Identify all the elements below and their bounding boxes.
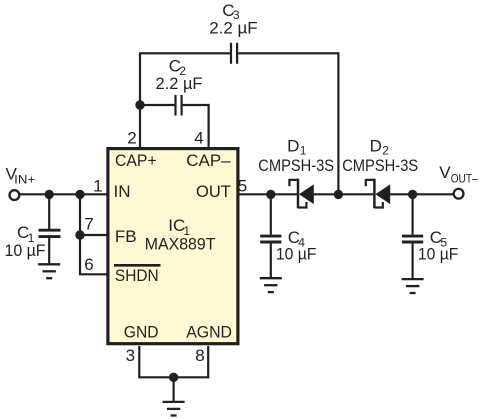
svg-text:FB: FB (115, 227, 137, 246)
wire C2 right and pin 4 (183, 105, 209, 149)
svg-text:2: 2 (127, 128, 136, 147)
node junction dot GND net (169, 373, 178, 382)
svg-text:8: 8 (195, 346, 204, 365)
terminal VIN+ (10, 190, 20, 200)
wire D1 to D2 (314, 193, 374, 195)
diode D1 CMPSH-3S (289, 179, 313, 209)
svg-text:6: 6 (84, 255, 93, 274)
svg-text:CMPSH-3S: CMPSH-3S (342, 156, 418, 175)
capacitor C2 (174, 95, 176, 116)
svg-text:7: 7 (84, 215, 93, 234)
svg-text:MAX889T: MAX889T (145, 234, 216, 253)
ground below C5 (402, 279, 424, 293)
wire C4 to ground (270, 243, 272, 278)
ground below C4 (260, 278, 282, 292)
svg-text:2.2 µF: 2.2 µF (156, 74, 203, 93)
wire C5 branch upper (412, 194, 414, 234)
svg-text:10 µF: 10 µF (5, 241, 46, 260)
diode D2 CMPSH-3S (366, 179, 390, 209)
wire input rail VIN+ to pin 1 (20, 193, 108, 195)
svg-text:1: 1 (93, 176, 102, 195)
svg-text:SHDN: SHDN (115, 266, 159, 285)
wire GND net to ground (173, 377, 175, 401)
terminal VOUT- (454, 189, 464, 199)
svg-text:IN: IN (114, 182, 131, 201)
svg-text:AGND: AGND (186, 323, 232, 342)
svg-text:V: V (439, 163, 451, 182)
svg-text:D: D (370, 137, 382, 156)
svg-text:OUT: OUT (196, 182, 231, 201)
capacitor C1 (39, 229, 61, 232)
wire GND pin3 AGND pin8 (139, 346, 208, 377)
wire C3 top loop left and pin 2 (140, 53, 230, 148)
svg-text:CMPSH-3S: CMPSH-3S (258, 156, 334, 175)
wire FB pin 7 (80, 234, 108, 236)
svg-text:CAP–: CAP– (186, 151, 231, 170)
svg-text:CAP+: CAP+ (115, 151, 157, 170)
wire C1 branch upper (48, 194, 50, 229)
capacitor C5 (402, 235, 423, 238)
wire C2 left (140, 104, 175, 106)
wire C4 branch upper (270, 194, 272, 234)
node junction dot output/C4 (266, 190, 275, 199)
wire C3 right to output rail (238, 53, 338, 194)
ground below C1 (38, 264, 60, 278)
wire C5 to ground (412, 243, 414, 279)
wire output rail pin 5 to D1 (239, 193, 297, 195)
wire FB-SHDN branch vertical and SHDN horizontal (80, 194, 108, 274)
node junction dot C2/C3/pin2 (135, 100, 144, 109)
svg-text:IN+: IN+ (14, 173, 35, 187)
svg-text:10 µF: 10 µF (418, 245, 459, 264)
IC U1 body MAX889T (108, 149, 238, 344)
svg-text:4: 4 (194, 128, 203, 147)
wire D2 to VOUT terminal (390, 193, 453, 195)
capacitor C3 (230, 43, 232, 64)
node junction dot input/FB branch (75, 190, 84, 199)
svg-text:2.2 µF: 2.2 µF (209, 19, 258, 38)
svg-text:D: D (287, 137, 299, 156)
svg-text:5: 5 (238, 176, 247, 195)
svg-text:GND: GND (124, 323, 159, 342)
svg-text:10 µF: 10 µF (276, 245, 317, 264)
ground main (163, 402, 185, 416)
svg-text:3: 3 (126, 346, 135, 365)
node junction dot input/C1 (45, 190, 54, 199)
node junction dot output/C3 (334, 190, 343, 199)
wire C1 to ground (48, 238, 50, 264)
svg-text:OUT–: OUT– (451, 172, 478, 186)
node junction dot output/C5 (408, 190, 417, 199)
node junction dot FB (75, 230, 84, 239)
capacitor C4 (260, 235, 281, 238)
